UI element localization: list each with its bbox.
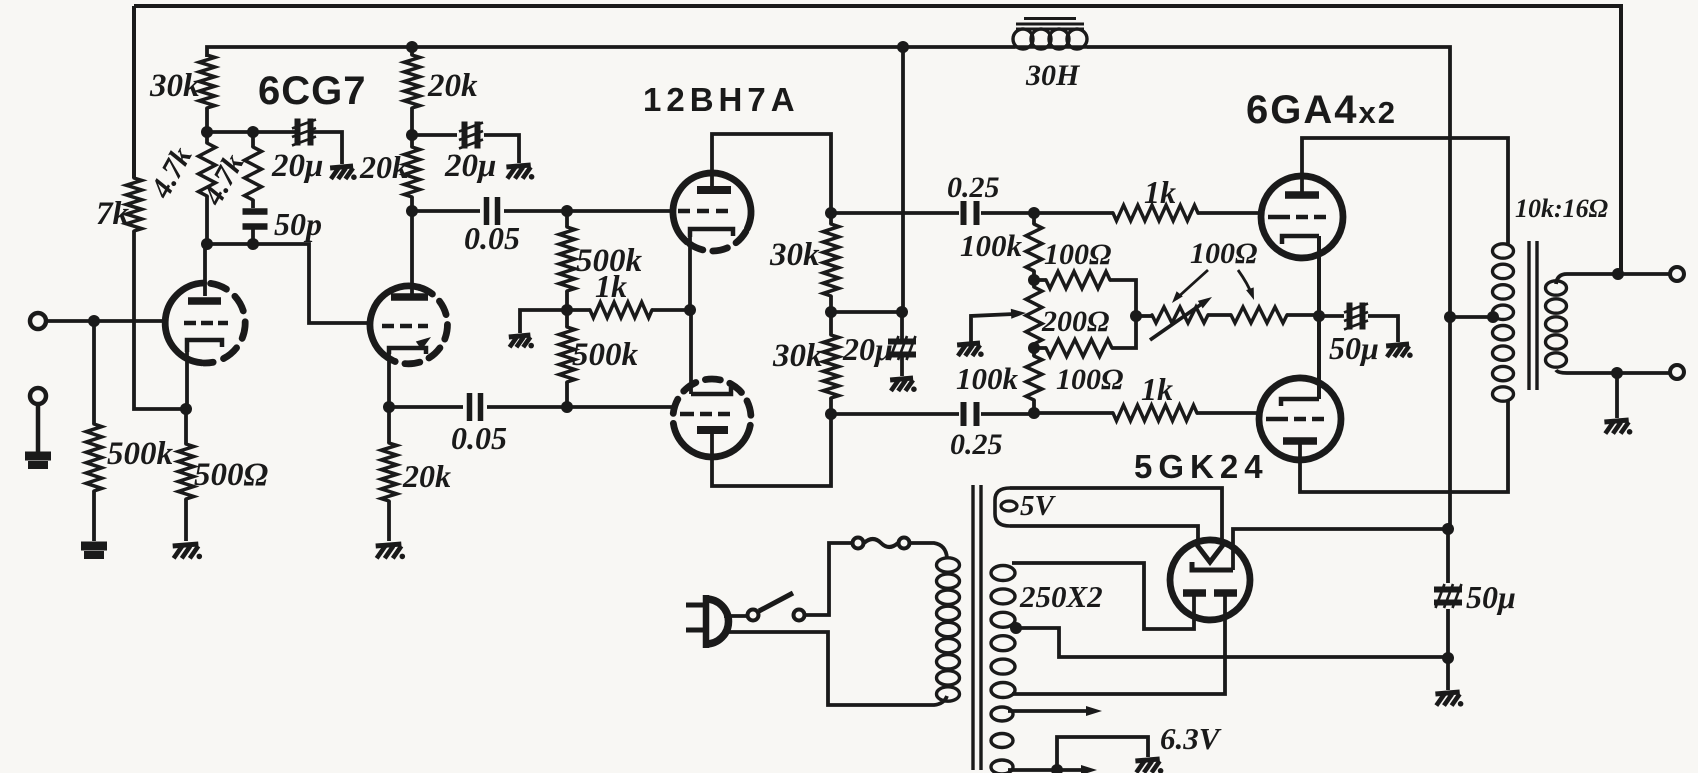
winding 5V [995,488,1017,526]
junction input-500k [88,315,100,327]
resistor 1k grid upper [1034,205,1263,221]
label 20u-2 [444,148,496,184]
svg-text:100Ω: 100Ω [1044,238,1111,271]
label 50u cathode [1329,330,1379,366]
svg-text:1k: 1k [1144,174,1176,210]
junction 100ohm lower node [1028,342,1040,354]
junction heater tap [1051,764,1063,773]
junction cathode join [684,304,696,316]
wire 5V top to filament [1010,488,1222,545]
transformer output secondary [1546,281,1567,367]
junction rail-screen [897,41,909,53]
wire V3 cathode [1317,236,1321,316]
resistor 500ohm cathode [178,409,194,541]
label 5GK24 [1134,448,1269,485]
variable arrow hum [1150,297,1212,340]
switch power [748,593,805,621]
wire heater tap to ground [1057,737,1148,770]
svg-text:0.25: 0.25 [950,428,1003,461]
label 1k grid upper [1144,174,1176,210]
svg-text:30k: 30k [769,237,820,273]
capacitor 50u cathode [1319,303,1398,343]
wire V1b cathode lead [387,354,391,407]
junction bypass node [896,306,908,318]
wire screen drop [901,47,905,312]
junction output cathodes [1313,310,1325,322]
label 100k upper [960,228,1023,263]
wire B+ rail left [207,47,1015,57]
wire V5 plate right [1012,593,1225,694]
label 100ohm upper [1044,238,1111,271]
wire 0.05 to grid node [504,209,567,213]
wire filament to B+ [1233,529,1448,570]
wire switch to fuse [805,543,852,615]
wire secondary bottom [1556,370,1669,373]
wire 7k to input cathode [134,231,186,409]
resistor 30k lower [823,312,839,414]
junction plate V1a [201,238,213,250]
svg-text:7k: 7k [96,196,130,232]
junction rail-20k [406,41,418,53]
junction grid node upper [561,205,573,217]
wire feedback left drop [132,6,136,178]
wire 0.25 to 100k upper [981,211,1034,215]
label 1k bias [595,268,627,304]
label 0.05 upper [464,220,520,256]
terminal output hot [1670,267,1684,281]
svg-text:30k: 30k [772,338,823,374]
svg-text:250X2: 250X2 [1019,579,1103,614]
tube V4 6GA4 lower [1259,378,1341,460]
wire V2b cathode [689,310,693,394]
svg-text:30H: 30H [1025,59,1081,92]
plug AC [686,595,729,648]
wire secondary top [1556,274,1669,284]
label 20K upper [427,68,478,104]
junction center tap [1444,311,1499,323]
svg-text:5V: 5V [1020,490,1057,522]
resistor 100k upper [1026,213,1042,280]
svg-text:50p: 50p [274,206,322,242]
svg-text:20k: 20k [427,68,478,104]
ground 20k cathode [376,544,405,559]
junction 47k2 top [247,126,259,138]
junction 100k upper [1028,207,1040,219]
wire primary center tap [1450,315,1494,319]
capacitor 50u main [1434,529,1462,658]
transformer output primary [1493,244,1514,401]
junction hum node [1130,310,1142,322]
label 47k second [196,148,251,211]
label 500k input [107,436,174,472]
wire V1a cathode lead [185,352,189,409]
svg-text:5GK24: 5GK24 [1134,448,1269,485]
wire V4 cathode [1317,316,1321,399]
wire heater top [1008,706,1102,716]
ground bypass [890,378,917,392]
wire 20u to ground [313,132,342,164]
wire plug to switch [724,614,748,618]
junction 100k bottom [1028,407,1040,419]
wire plug low to primary [723,632,947,705]
resistor 20k plate upper V1b [404,47,420,135]
wire node A to 20u [207,130,295,134]
wire coupling 1 [412,209,480,213]
label 30k lower [772,338,823,374]
svg-text:500k: 500k [107,436,174,472]
resistor 500k upper [559,211,575,310]
label 500ohm [194,457,269,493]
svg-text:20μ: 20μ [271,148,323,184]
terminal output common [1670,365,1684,379]
label 6CG7 [258,69,367,113]
ground heater [1135,759,1163,773]
svg-text:1k: 1k [1141,371,1173,407]
wire 5V bottom to filament [1010,526,1198,545]
wire 30k to node A [205,108,209,132]
junction 500k mid [561,304,573,316]
ground 50u cathode [1386,344,1413,358]
label 7k [96,196,130,232]
arrow hum label right [1238,270,1254,300]
resistor 1k bias [567,302,689,318]
wire V1b cathode to 0.05 [389,405,463,409]
wire secondary to ground [1615,373,1619,418]
junction V2b plate [825,408,837,420]
ground bias [509,335,534,348]
junction node A [201,126,213,138]
label 20k cathode [402,458,451,494]
potentiometer 200ohm [1026,280,1042,348]
terminal input jack [30,313,46,329]
wire 30k mid to bypass [831,310,902,314]
wire V1b plate lead [410,211,414,295]
label 0.05 lower [451,420,507,456]
junction V1b cathode [383,401,395,413]
label 20k lower [359,149,408,185]
svg-text:0.05: 0.05 [451,420,507,456]
ground wiper [957,343,984,357]
label 20u bypass [842,331,893,367]
svg-text:100Ω: 100Ω [1190,237,1257,270]
junction 30k mid [825,306,837,318]
wire 50p to grid bus [251,227,255,244]
wire screen to 20u-2 [412,133,457,137]
resistor hum balance 2 [1231,307,1319,323]
tube V2b 12BH7A lower [673,379,751,457]
label 12BH7A [643,81,800,118]
capacitor 0.05 upper [487,197,498,225]
capacitor 20u bypass [888,312,916,376]
tube V1b 6CG7 triode 2 [370,286,447,364]
transformer power HV winding [991,566,1015,698]
wiper arrow 200ohm [971,309,1026,342]
junction V1a cathode [180,403,192,415]
inductor choke 30H [1013,19,1087,50]
junction 50p bottom [247,238,259,250]
label 30H [1025,59,1081,92]
label 6GA4x2 [1246,88,1397,132]
svg-text:100Ω: 100Ω [1056,363,1123,396]
svg-text:0.25: 0.25 [947,171,1000,204]
capacitor 50p [243,212,268,227]
svg-text:20k: 20k [402,458,451,494]
resistor 100ohm upper [1034,272,1136,317]
junction feedback takeoff [1612,268,1624,280]
capacitor 0.25 lower [964,402,977,426]
wire jack2 to ground [36,404,41,453]
wire to 12BH7A grid upper [567,209,675,213]
svg-text:50μ: 50μ [1466,579,1516,615]
svg-text:500Ω: 500Ω [194,457,269,493]
label 6.3V [1160,721,1222,756]
label 20u-1 [271,148,323,184]
junction 100ohm upper node [1028,274,1040,286]
wire B+ drop to rectifier [1448,317,1452,529]
resistor 47k second [245,132,262,208]
wire V2b plate to 30k [712,414,831,486]
svg-text:10k:16Ω: 10k:16Ω [1515,194,1608,223]
label 0.25 lower [950,428,1003,461]
resistor 100k lower [1026,348,1042,413]
label 50u main [1466,579,1516,615]
resistor 47k first [199,132,216,244]
svg-text:12BH7A: 12BH7A [643,81,800,118]
label 100k lower [956,361,1019,396]
junction V1b plate [406,205,418,217]
resistor hum balance 1 [1136,307,1231,323]
svg-text:200Ω: 200Ω [1041,305,1109,338]
resistor 20k lower V1b [404,135,420,211]
wire V1a plate lead [203,244,207,296]
label 500k lower [572,337,639,373]
svg-text:100k: 100k [960,228,1023,263]
transformer power primary [937,558,960,701]
wire B+ rail right [1087,47,1450,317]
capacitor 0.05 lower [470,393,481,421]
wire plate out upper [831,211,959,215]
wire HV center tap [1016,628,1450,657]
svg-text:6GA4x2: 6GA4x2 [1246,88,1397,132]
ground main [1435,692,1463,707]
svg-text:6.3V: 6.3V [1160,721,1222,756]
wire 0.05 to grid lower [487,405,675,409]
wire to main ground [1446,658,1450,690]
svg-text:30k: 30k [149,68,200,104]
svg-text:1k: 1k [595,268,627,304]
resistor 500k input [86,321,102,541]
label 30k V1a [149,68,200,104]
resistor 100ohm lower [1034,316,1136,357]
tube V5 5GK24 rectifier [1170,540,1250,620]
label 250X2 [1019,579,1103,614]
wire V4 plate [1300,400,1508,492]
resistor 500k lower [559,310,575,407]
capacitor 0.25 upper [964,201,977,225]
junction B+ node [1442,523,1454,535]
junction grid node lower [561,401,573,413]
label 100ohm hum [1190,237,1257,270]
capacitor 20u decouple 2 [459,122,483,149]
junction secondary ground [1611,367,1623,379]
junction main ground node [1442,652,1454,664]
svg-text:6CG7: 6CG7 [258,69,367,113]
svg-text:0.05: 0.05 [464,220,520,256]
svg-text:500k: 500k [572,337,639,373]
ground secondary [1604,420,1632,435]
fuse power [853,538,910,549]
resistor 30k upper [823,213,839,312]
label 50p [274,206,322,242]
svg-text:50μ: 50μ [1329,330,1379,366]
label 100ohm lower [1056,363,1123,396]
wire V2a cathode [688,237,692,311]
junction HV center tap [1010,622,1022,634]
tube V3 6GA4 upper [1261,176,1343,258]
wire plate out lower [831,412,959,416]
transformer power core [973,485,981,770]
terminal jack2 [30,388,46,404]
ground 500k input [81,546,107,555]
label 1k grid lower [1141,371,1173,407]
transformer output core [1529,241,1537,390]
wire heater bottom [1008,765,1097,773]
wire V3 plate [1302,138,1508,244]
label 30k upper [769,237,820,273]
resistor 30k plate load V1a [199,55,215,108]
capacitor 20u decouple 1 [292,119,316,146]
ground after 20u-2 [506,165,534,180]
wire fuse to primary [910,543,947,558]
arrow hum label left [1172,270,1208,303]
ground after 20u-1 [330,166,357,180]
svg-text:100k: 100k [956,361,1019,396]
wire input to grid [46,319,168,323]
ground jack2 [25,456,51,465]
resistor 20k cathode V1b [381,407,397,541]
svg-text:20μ: 20μ [842,331,893,367]
wire bias ground stub [520,310,567,333]
junction V2a plate [825,207,837,219]
wire grid bus to V1b [207,244,372,323]
wire 0.25 to 100k lower [981,412,1034,416]
label 5V [1020,490,1057,522]
tube V1a 6CG7 triode 1 [165,283,245,363]
tube V2a 12BH7A upper [673,173,751,251]
label 10k:16ohm [1515,194,1608,223]
resistor 1k grid lower [1034,405,1261,421]
svg-text:20μ: 20μ [444,148,496,184]
wire 20u-2 to ground [484,135,519,163]
ground 500ohm [173,544,202,559]
label 200ohm [1041,305,1109,338]
wire V5 plate left [1012,563,1194,629]
label 0.25 upper [947,171,1000,204]
label 47k first [144,141,199,204]
junction screen node [406,129,418,141]
resistor 7k feedback [126,178,142,231]
transformer power heater winding [991,707,1013,773]
wire feedback top frame [134,6,1621,274]
wire V2a plate to 30k [712,134,831,213]
label 500k upper [576,243,643,279]
